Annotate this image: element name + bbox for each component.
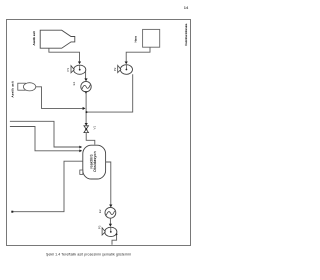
label Oksidasyon reaktoru bbox=[89, 151, 97, 172]
svg-text:Şekil 1.4 Tereftalik asit pros: Şekil 1.4 Tereftalik asit prosesinin şem… bbox=[46, 253, 131, 257]
svg-text:E1: E1 bbox=[72, 81, 76, 85]
wire tank T1 to pump P1 bbox=[49, 48, 80, 62]
svg-text:V1: V1 bbox=[93, 125, 97, 129]
wire pump P1 to heat exchanger E1 bbox=[85, 71, 87, 78]
reactor nozzle stub bbox=[80, 170, 83, 174]
svg-text:P1: P1 bbox=[66, 67, 70, 71]
svg-text:P2: P2 bbox=[113, 67, 117, 71]
demineralize su pump P0 bbox=[18, 83, 36, 91]
svg-text:E2: E2 bbox=[98, 209, 102, 213]
tank T1 (p-ksilen feed tank, pentagon with nozzle) bbox=[40, 30, 75, 48]
junction bbox=[86, 111, 88, 113]
wire box S1 to pump P2 bbox=[126, 47, 150, 62]
heat exchanger E1 bbox=[81, 81, 91, 91]
svg-text:P3: P3 bbox=[98, 225, 102, 229]
pump P1 bbox=[71, 65, 86, 74]
heat exchanger E2 bbox=[105, 207, 116, 218]
feed stream B into reactor bbox=[10, 127, 80, 151]
svg-text:Oksidasyon: Oksidasyon bbox=[93, 151, 97, 172]
svg-text:Hava: Hava bbox=[135, 36, 138, 43]
svg-text:Asetik asit: Asetik asit bbox=[10, 81, 14, 97]
wire reactor right outlet down to E2 bbox=[106, 162, 111, 205]
reactor R1 vessel bbox=[83, 145, 106, 179]
wire demin pump to main line bbox=[36, 87, 83, 109]
svg-text:Asetik asit: Asetik asit bbox=[32, 31, 36, 45]
pump P3 bbox=[102, 227, 117, 236]
svg-text:14: 14 bbox=[184, 5, 189, 10]
wire valve V1 to reactor top bbox=[86, 133, 95, 145]
valve V1 bbox=[84, 123, 89, 133]
wire pump P2 return line bbox=[86, 74, 133, 112]
pump P2 (compressor) bbox=[118, 65, 133, 75]
drain line from reactor to left bbox=[12, 161, 83, 212]
gas source box S1 bbox=[143, 29, 160, 47]
feed stream A into reactor bbox=[10, 121, 80, 147]
wire E1 down to valve V1 bbox=[84, 91, 87, 94]
wire E2 to pump P3 bbox=[109, 218, 111, 224]
border frame bbox=[7, 20, 191, 246]
svg-text:Damıtma kolonuna: Damıtma kolonuna bbox=[184, 23, 188, 45]
wire pump P3 outlet to bottom frame bbox=[112, 234, 117, 244]
